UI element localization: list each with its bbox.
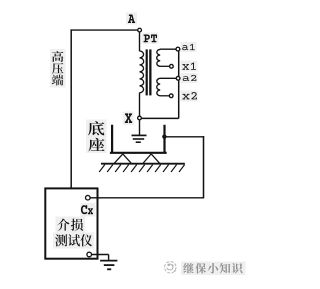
- label 底座 (base): [88, 121, 105, 151]
- tester ground symbol bar 3: [107, 268, 111, 270]
- wire winding1 top to terminal a1: [160, 48, 176, 50]
- terminal X circle: [138, 116, 142, 120]
- label 介损 (dielectric loss): [57, 219, 83, 231]
- support insulator triangle right: [143, 154, 160, 164]
- wire winding2 bottom to terminal x2: [160, 95, 170, 97]
- wire top horizontal from high-voltage rail to node A: [71, 29, 138, 31]
- label X: [125, 113, 132, 123]
- wire X terminal down to tank ground: [139, 120, 141, 135]
- ground symbol inside base bar 1: [132, 134, 147, 136]
- label A: [128, 14, 135, 23]
- base tank U-shape: [110, 125, 167, 153]
- wire base junction to the right: [167, 136, 205, 138]
- wire secondary rail from a1 through a2 down to X tie: [178, 49, 180, 118]
- label x2: [182, 92, 197, 99]
- terminal tester ground circle: [87, 252, 92, 257]
- wire winding2 top to terminal a2: [160, 77, 176, 79]
- label Cx: [81, 205, 93, 214]
- wire tie from X to secondary rail: [141, 117, 178, 119]
- label x1: [182, 62, 196, 69]
- wire winding1 bottom to terminal x1: [160, 65, 170, 67]
- label PT: [144, 34, 157, 42]
- secondary winding 1 of PT: [157, 49, 161, 66]
- tester ground symbol bar 1: [100, 260, 117, 262]
- terminal a1 circle: [176, 47, 180, 51]
- wire bottom horizontal to Cx terminal: [90, 197, 204, 199]
- primary winding of PT: [140, 51, 144, 93]
- watermark logo: [165, 262, 176, 273]
- label a1: [182, 44, 195, 50]
- transformer core bar left: [146, 49, 148, 95]
- ground symbol inside base bar 2: [133, 138, 144, 140]
- node A terminal circle: [138, 28, 142, 32]
- wire primary winding bottom to terminal X: [139, 93, 141, 117]
- terminal Cx circle: [86, 195, 91, 200]
- secondary winding 2 of PT: [157, 78, 161, 96]
- tester ground symbol bar 2: [104, 264, 115, 266]
- label a2: [183, 75, 197, 81]
- wire node A to primary winding top: [139, 32, 141, 51]
- support insulator triangle left: [114, 154, 132, 164]
- ground plane line: [101, 163, 185, 165]
- tester box outline: [45, 188, 97, 258]
- wire right-side vertical down: [203, 136, 205, 198]
- wire left high-voltage rail down to tester: [70, 29, 72, 188]
- terminal a2 circle: [176, 76, 180, 80]
- label 测试仪 (tester): [55, 234, 92, 246]
- ground plane hatching: [99, 165, 184, 172]
- wire tester terminal to ground symbol: [92, 255, 109, 260]
- ground symbol inside base bar 3: [136, 141, 141, 143]
- terminal x2 circle: [169, 94, 173, 98]
- terminal x1 circle: [170, 64, 174, 68]
- watermark text 继保小知识: [183, 263, 242, 274]
- transformer core bar right: [149, 49, 151, 95]
- junction dot on base right wall: [162, 135, 166, 139]
- label 高压端 (high-voltage end): [52, 51, 64, 85]
